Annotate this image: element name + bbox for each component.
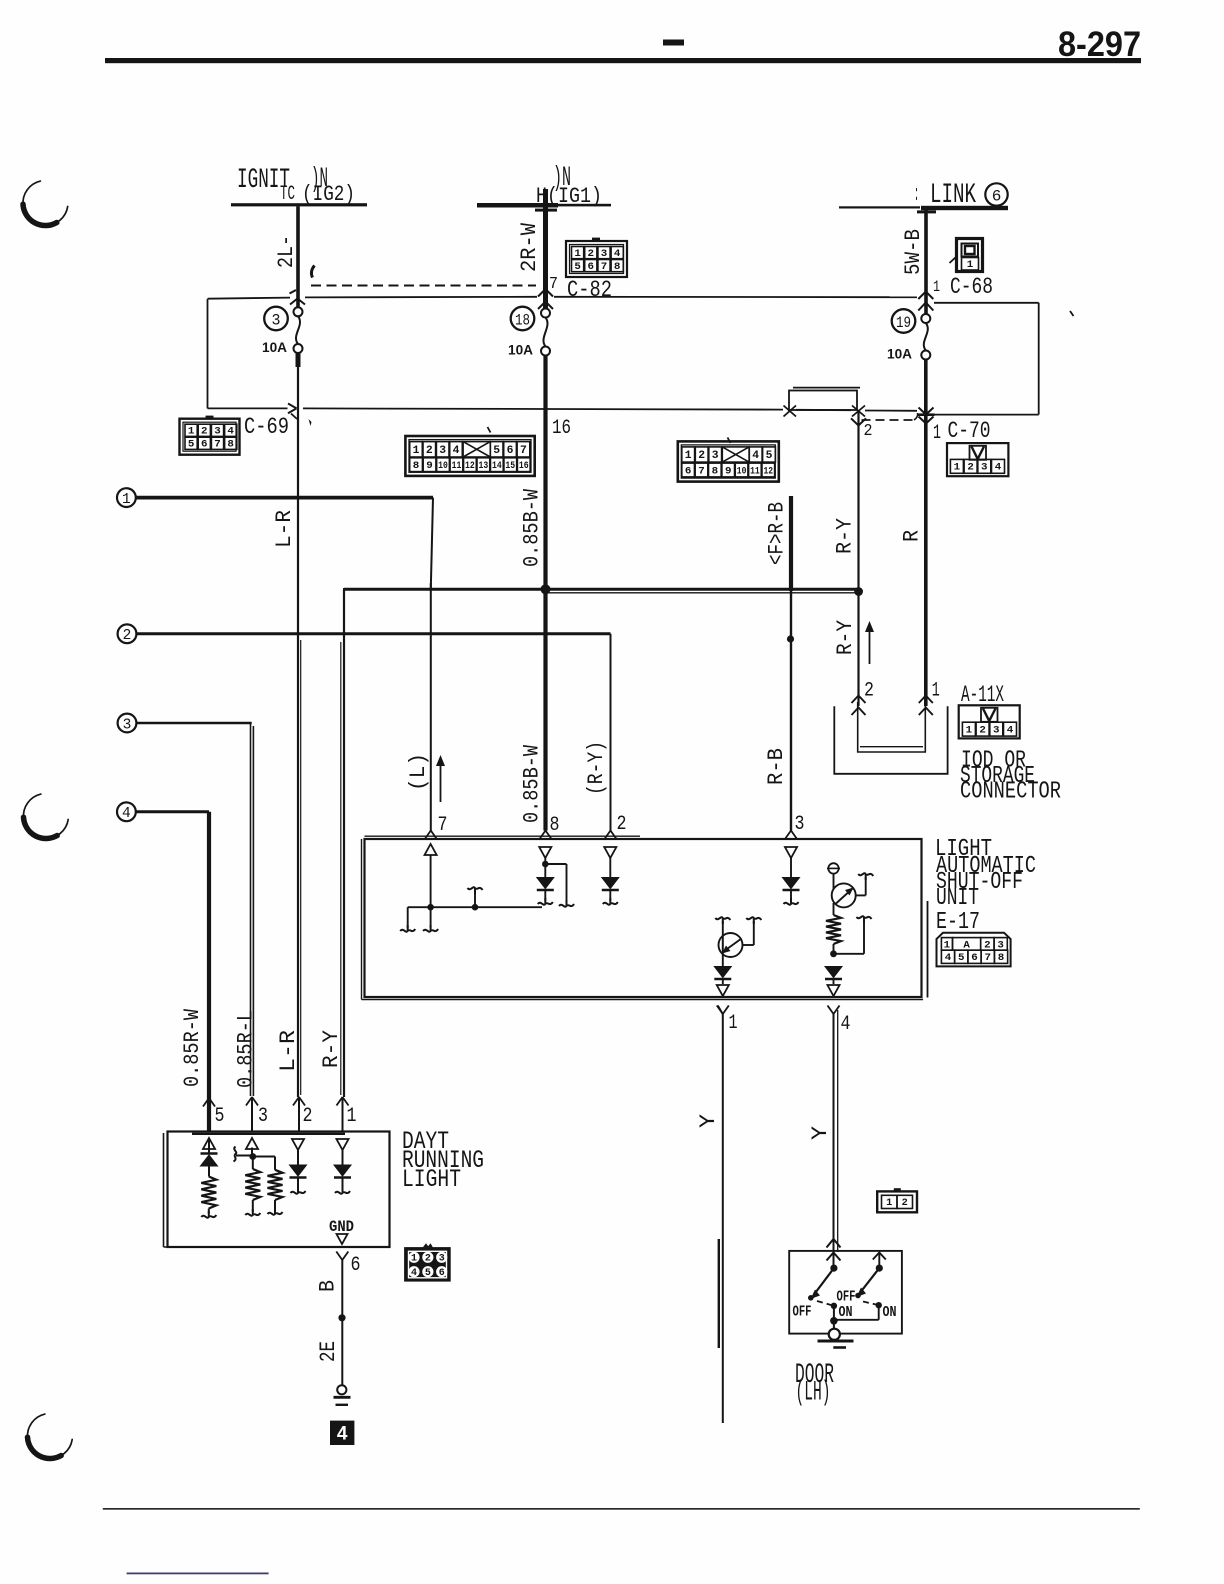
svg-text:R-Y: R-Y [832,518,857,554]
svg-text:4: 4 [945,952,952,964]
svg-text:6: 6 [507,445,514,457]
svg-text:14: 14 [492,460,502,472]
svg-text:3: 3 [795,813,805,836]
dashed jumper mark [311,266,314,278]
resistor R3 [252,1157,254,1170]
page header rule [105,58,1141,63]
fuse 19 10A [921,314,930,323]
connector 1-2 icon [877,1191,917,1212]
svg-text:5: 5 [493,445,500,457]
svg-text:12: 12 [763,465,773,477]
pin8 branch [545,863,566,865]
stub tail DRL [236,1155,253,1157]
svg-text:2: 2 [698,450,705,462]
footer rule [103,1508,1140,1510]
svg-text:(L): (L) [406,753,431,791]
svg-text:10A: 10A [262,339,287,355]
stub tail left [407,907,409,928]
svg-text:4: 4 [995,462,1002,474]
svg-text:3: 3 [712,450,719,462]
svg-text:6: 6 [351,1254,361,1277]
svg-text:3: 3 [439,445,446,457]
footer short blue line [127,1573,269,1575]
unit pin 3 [785,831,791,840]
svg-text:ON: ON [839,1304,853,1321]
svg-text:4: 4 [411,1268,417,1279]
wire 0.85B-W (fuse18 to unit pin8) [543,355,547,831]
svg-text:C-82: C-82 [567,277,612,303]
svg-text:4: 4 [614,248,621,260]
stub below fuse 3 [296,353,301,367]
dashed edge segment [862,419,918,421]
ground symbol [337,1385,346,1394]
svg-text:UNIT: UNIT [936,885,979,912]
svg-text:8: 8 [550,814,560,837]
X crossing at small box left [784,406,797,417]
pin4 internal arrow [827,985,839,996]
door entry arrows pin4 [827,1239,841,1248]
wire 5W-B vertical [924,208,928,314]
svg-text:4: 4 [453,445,460,457]
svg-text:2: 2 [864,679,874,702]
wire Y right [833,1014,835,1268]
dashed wire to C-82 [311,285,536,287]
svg-text:19: 19 [896,314,911,332]
svg-text:3: 3 [123,717,132,733]
svg-text:1: 1 [954,462,961,474]
svg-text:18: 18 [515,311,530,329]
center dash [663,40,684,46]
svg-text:3: 3 [993,725,1000,737]
svg-text:7: 7 [601,261,608,273]
transistor Q2 [832,883,856,907]
svg-text:C-69: C-69 [244,414,289,440]
connector C-82 icon [566,241,627,277]
connector C-68 icon [957,239,983,272]
diode D4 [714,967,731,978]
svg-text:1: 1 [933,278,940,296]
svg-text:(LH): (LH) [796,1378,831,1409]
GND arrow [337,1234,348,1244]
unit pin 7 [425,831,431,840]
relay box on junction edge [789,391,857,411]
wire R (fuse19 to IOD pin1) [924,360,928,707]
DRL pin5 arrow [203,1138,215,1149]
arrow at C-69 exit [288,404,297,409]
svg-text:3: 3 [601,248,608,260]
T stub with tail [474,891,476,907]
svg-text:1: 1 [886,1198,892,1209]
wire 2R-W vertical [543,189,548,309]
connector E-17 icon [937,933,1011,967]
unit pin 8 [540,831,546,840]
wire <F>R-B vertical [789,496,793,591]
diode D8 [334,1165,351,1176]
wire R-B to unit pin3 [790,591,792,831]
tick above 16pin [488,427,491,433]
svg-text:3: 3 [258,1105,268,1128]
svg-text:1: 1 [967,259,974,271]
resistor R1 [826,915,841,944]
svg-text:6: 6 [992,188,1002,206]
svg-text:7: 7 [698,465,705,477]
svg-text:8: 8 [614,261,621,273]
connector 6pin round icon [423,1243,433,1247]
svg-text:1: 1 [188,426,195,438]
svg-text:4: 4 [337,1424,348,1445]
svg-text:2R-W: 2R-W [517,222,542,272]
svg-text:C-68: C-68 [950,274,993,300]
svg-text:R: R [899,530,924,542]
connector C-69 icon [180,419,240,455]
svg-text:7: 7 [438,814,448,837]
DRL pin3 arrow [246,1138,258,1149]
DRL pin 2 [293,1097,299,1106]
svg-text:9: 9 [426,460,433,472]
svg-text:2L-: 2L- [274,235,299,268]
crossing arrows wire B top [538,289,553,297]
door lamp/ground circle [833,1321,835,1329]
svg-text:1: 1 [932,679,940,702]
connector A-11X icon [959,705,1020,738]
net 3 line [136,722,252,725]
IOD entry arrows pin1 [919,696,933,704]
svg-text:12: 12 [465,460,475,472]
svg-text:5: 5 [425,1268,431,1279]
svg-text:2: 2 [979,725,986,737]
svg-text:1: 1 [347,1105,357,1128]
IOD inner connector box [858,702,926,752]
unit box [365,839,922,997]
svg-text:0.85B-W: 0.85B-W [519,744,544,823]
svg-text:3: 3 [439,1254,445,1265]
diode D5 [825,967,842,978]
DRL pin1 arrow [336,1139,348,1150]
wire 2L- vertical [296,206,300,307]
door entry arrow right [873,1253,886,1260]
pin1 internal arrow [717,985,729,996]
node 4 circled [117,802,136,821]
net 4 line [136,810,210,813]
svg-text:5: 5 [958,952,965,964]
svg-text:7: 7 [520,445,527,457]
junction dot [338,1314,345,1321]
svg-text:<F>R-B: <F>R-B [764,502,789,565]
svg-text:OFF: OFF [837,1289,856,1306]
wire (L) to unit pin7 [430,583,432,831]
svg-text:2: 2 [864,422,873,441]
svg-text:7: 7 [214,439,221,451]
svg-text:8: 8 [998,952,1005,964]
svg-text:3: 3 [981,462,988,474]
svg-text:5: 5 [574,261,581,273]
svg-text:10A: 10A [887,346,912,362]
svg-text:1: 1 [685,450,692,462]
svg-text:1: 1 [411,1254,417,1265]
crossing arrows wire C top [918,292,933,300]
svg-text:7: 7 [985,952,992,964]
svg-text:R-Y: R-Y [319,1030,344,1068]
svg-text:0.85R-L: 0.85R-L [233,1010,258,1088]
svg-text:13: 13 [479,460,489,472]
bar crossing at R exit [918,413,935,416]
svg-text:16: 16 [552,417,571,440]
pin3 internal arrow [785,847,797,858]
pin8 internal arrow [539,847,551,858]
svg-text:CONNECTOR: CONNECTOR [960,779,1061,806]
junction block outline [207,299,209,408]
svg-text:8: 8 [712,465,719,477]
svg-text:6: 6 [971,952,978,964]
svg-text:8: 8 [413,460,420,472]
svg-text:2E: 2E [316,1341,341,1362]
svg-text:L-R: L-R [272,510,297,548]
svg-text:R-B: R-B [764,748,789,785]
svg-text:2: 2 [902,1198,908,1209]
wire Y left [722,1014,724,1423]
svg-text:11: 11 [452,460,462,472]
diode D6 [201,1152,218,1155]
connector C-70 icon [947,443,1008,476]
svg-text:4: 4 [752,450,759,462]
black square 4 [330,1421,354,1445]
binder hole top [23,181,68,225]
transistor Q1 [719,933,743,957]
door ground bars [818,1340,854,1343]
svg-text:0.85R-W: 0.85R-W [180,1008,205,1087]
svg-text:B: B [315,1280,340,1292]
svg-text:6: 6 [201,439,208,451]
circled 6 [985,183,1007,205]
node 1 circled [117,488,136,507]
svg-text:7: 7 [549,275,558,294]
svg-text:6: 6 [439,1268,445,1279]
net 1 line [136,496,434,500]
svg-text:OFF: OFF [793,1303,812,1320]
DRL pin 3 [246,1097,252,1106]
DRL box [168,1132,390,1248]
stub tail center [430,907,432,928]
svg-text:9: 9 [725,465,732,477]
svg-text:1: 1 [574,248,581,260]
unit pin 4 [828,1006,834,1015]
svg-text:2: 2 [617,813,627,836]
switch SW2 [876,1265,883,1272]
crossing arrows wire A top [290,290,297,294]
svg-text:0.85B-W: 0.85B-W [519,488,544,567]
DRL pin 6 [336,1252,342,1261]
direction arrow (L) [440,764,442,802]
svg-text:C-70: C-70 [948,418,991,444]
svg-text:1: 1 [966,725,973,737]
pin2 internal arrow [604,847,616,858]
unit pin 1 [717,1006,723,1015]
resistor R4 [268,1170,283,1200]
svg-text:4: 4 [841,1013,851,1036]
diode D2 [602,878,619,889]
SW2 dashed throw [863,1302,876,1305]
IOD outer box [834,706,947,774]
DRL pin 5 [203,1098,209,1107]
internal bus wire [408,906,542,908]
diode D7 [290,1165,307,1176]
svg-text:LIGHT: LIGHT [402,1165,461,1194]
branch to R4 [253,1156,275,1158]
svg-text:10A: 10A [508,342,533,358]
diode D1 [537,878,554,889]
svg-text:10: 10 [737,465,747,477]
svg-text:8-297: 8-297 [1058,25,1141,64]
svg-text::: : [914,182,919,207]
svg-text:2: 2 [426,445,433,457]
svg-text:5: 5 [766,450,773,462]
svg-text:2: 2 [201,426,208,438]
net 2 line [136,632,611,635]
resistor branch tail [834,953,865,955]
SW1 dashed throw [817,1301,831,1305]
IOD entry arrows pin2 [852,696,866,704]
diode D3 [783,878,800,889]
wire L-R (fuse3 to DRL pin2) [297,367,299,1097]
wire R-Y right (block to IOD pin2) [857,411,859,706]
svg-text:(R-Y): (R-Y) [584,741,609,795]
svg-text:3: 3 [214,426,221,438]
svg-text:15: 15 [505,460,515,472]
DRL pin2 arrow [292,1139,304,1150]
svg-text:5W-B: 5W-B [901,229,926,275]
svg-text:1: 1 [729,1012,738,1035]
svg-text:4: 4 [227,426,234,438]
svg-text:5: 5 [215,1105,225,1128]
pin7 internal arrow [425,844,437,855]
DOOR box [789,1251,902,1334]
binder hole bottom [27,1414,72,1458]
X cell [463,442,490,457]
svg-text:11: 11 [750,465,760,477]
svg-text:6: 6 [588,261,595,273]
svg-text:2: 2 [303,1105,313,1128]
svg-text:1: 1 [122,492,131,508]
svg-text:R-Y: R-Y [833,620,858,655]
svg-text:2: 2 [588,248,595,260]
resistor R2 [201,1177,216,1209]
fuse 3 10A [294,307,303,316]
tick above 12pin [728,438,731,444]
X crossing at R-Y exit [852,406,865,417]
svg-text:2: 2 [967,462,974,474]
svg-text:16: 16 [519,460,529,472]
unit pin 2 [605,831,611,840]
svg-text:L-R: L-R [276,1030,301,1072]
svg-text:4: 4 [122,806,131,822]
binder hole middle [23,794,68,838]
transistor Q2 terminal [828,863,838,873]
svg-text:A-11X: A-11X [961,682,1004,708]
svg-text:4: 4 [1007,725,1014,737]
node 2 circled [118,624,137,643]
svg-text:1: 1 [413,445,420,457]
svg-text:3: 3 [272,311,281,329]
wire R-Y (to DRL pin1) [343,589,345,1097]
svg-text:6: 6 [685,465,692,477]
stray tick right edge [1070,311,1074,316]
svg-text:2: 2 [425,1254,431,1265]
svg-text:Y: Y [696,1114,721,1128]
svg-text:Y: Y [808,1126,833,1140]
switch SW1 [830,1265,837,1272]
svg-text:2: 2 [123,628,132,644]
main horizontal net line [344,588,859,591]
svg-text:ON: ON [883,1304,897,1321]
svg-text:5: 5 [188,439,195,451]
svg-text:1: 1 [933,422,941,445]
svg-text:TC: TC [280,183,295,206]
connector 12pin icon [678,441,779,481]
svg-text:10: 10 [438,460,448,472]
node 3 circled [118,714,137,733]
DRL pin 1 [337,1097,343,1106]
svg-text:8: 8 [227,439,234,451]
fuse 18 10A [541,309,550,318]
direction arrow R-Y [869,631,871,664]
connector 16pin icon [405,436,534,476]
